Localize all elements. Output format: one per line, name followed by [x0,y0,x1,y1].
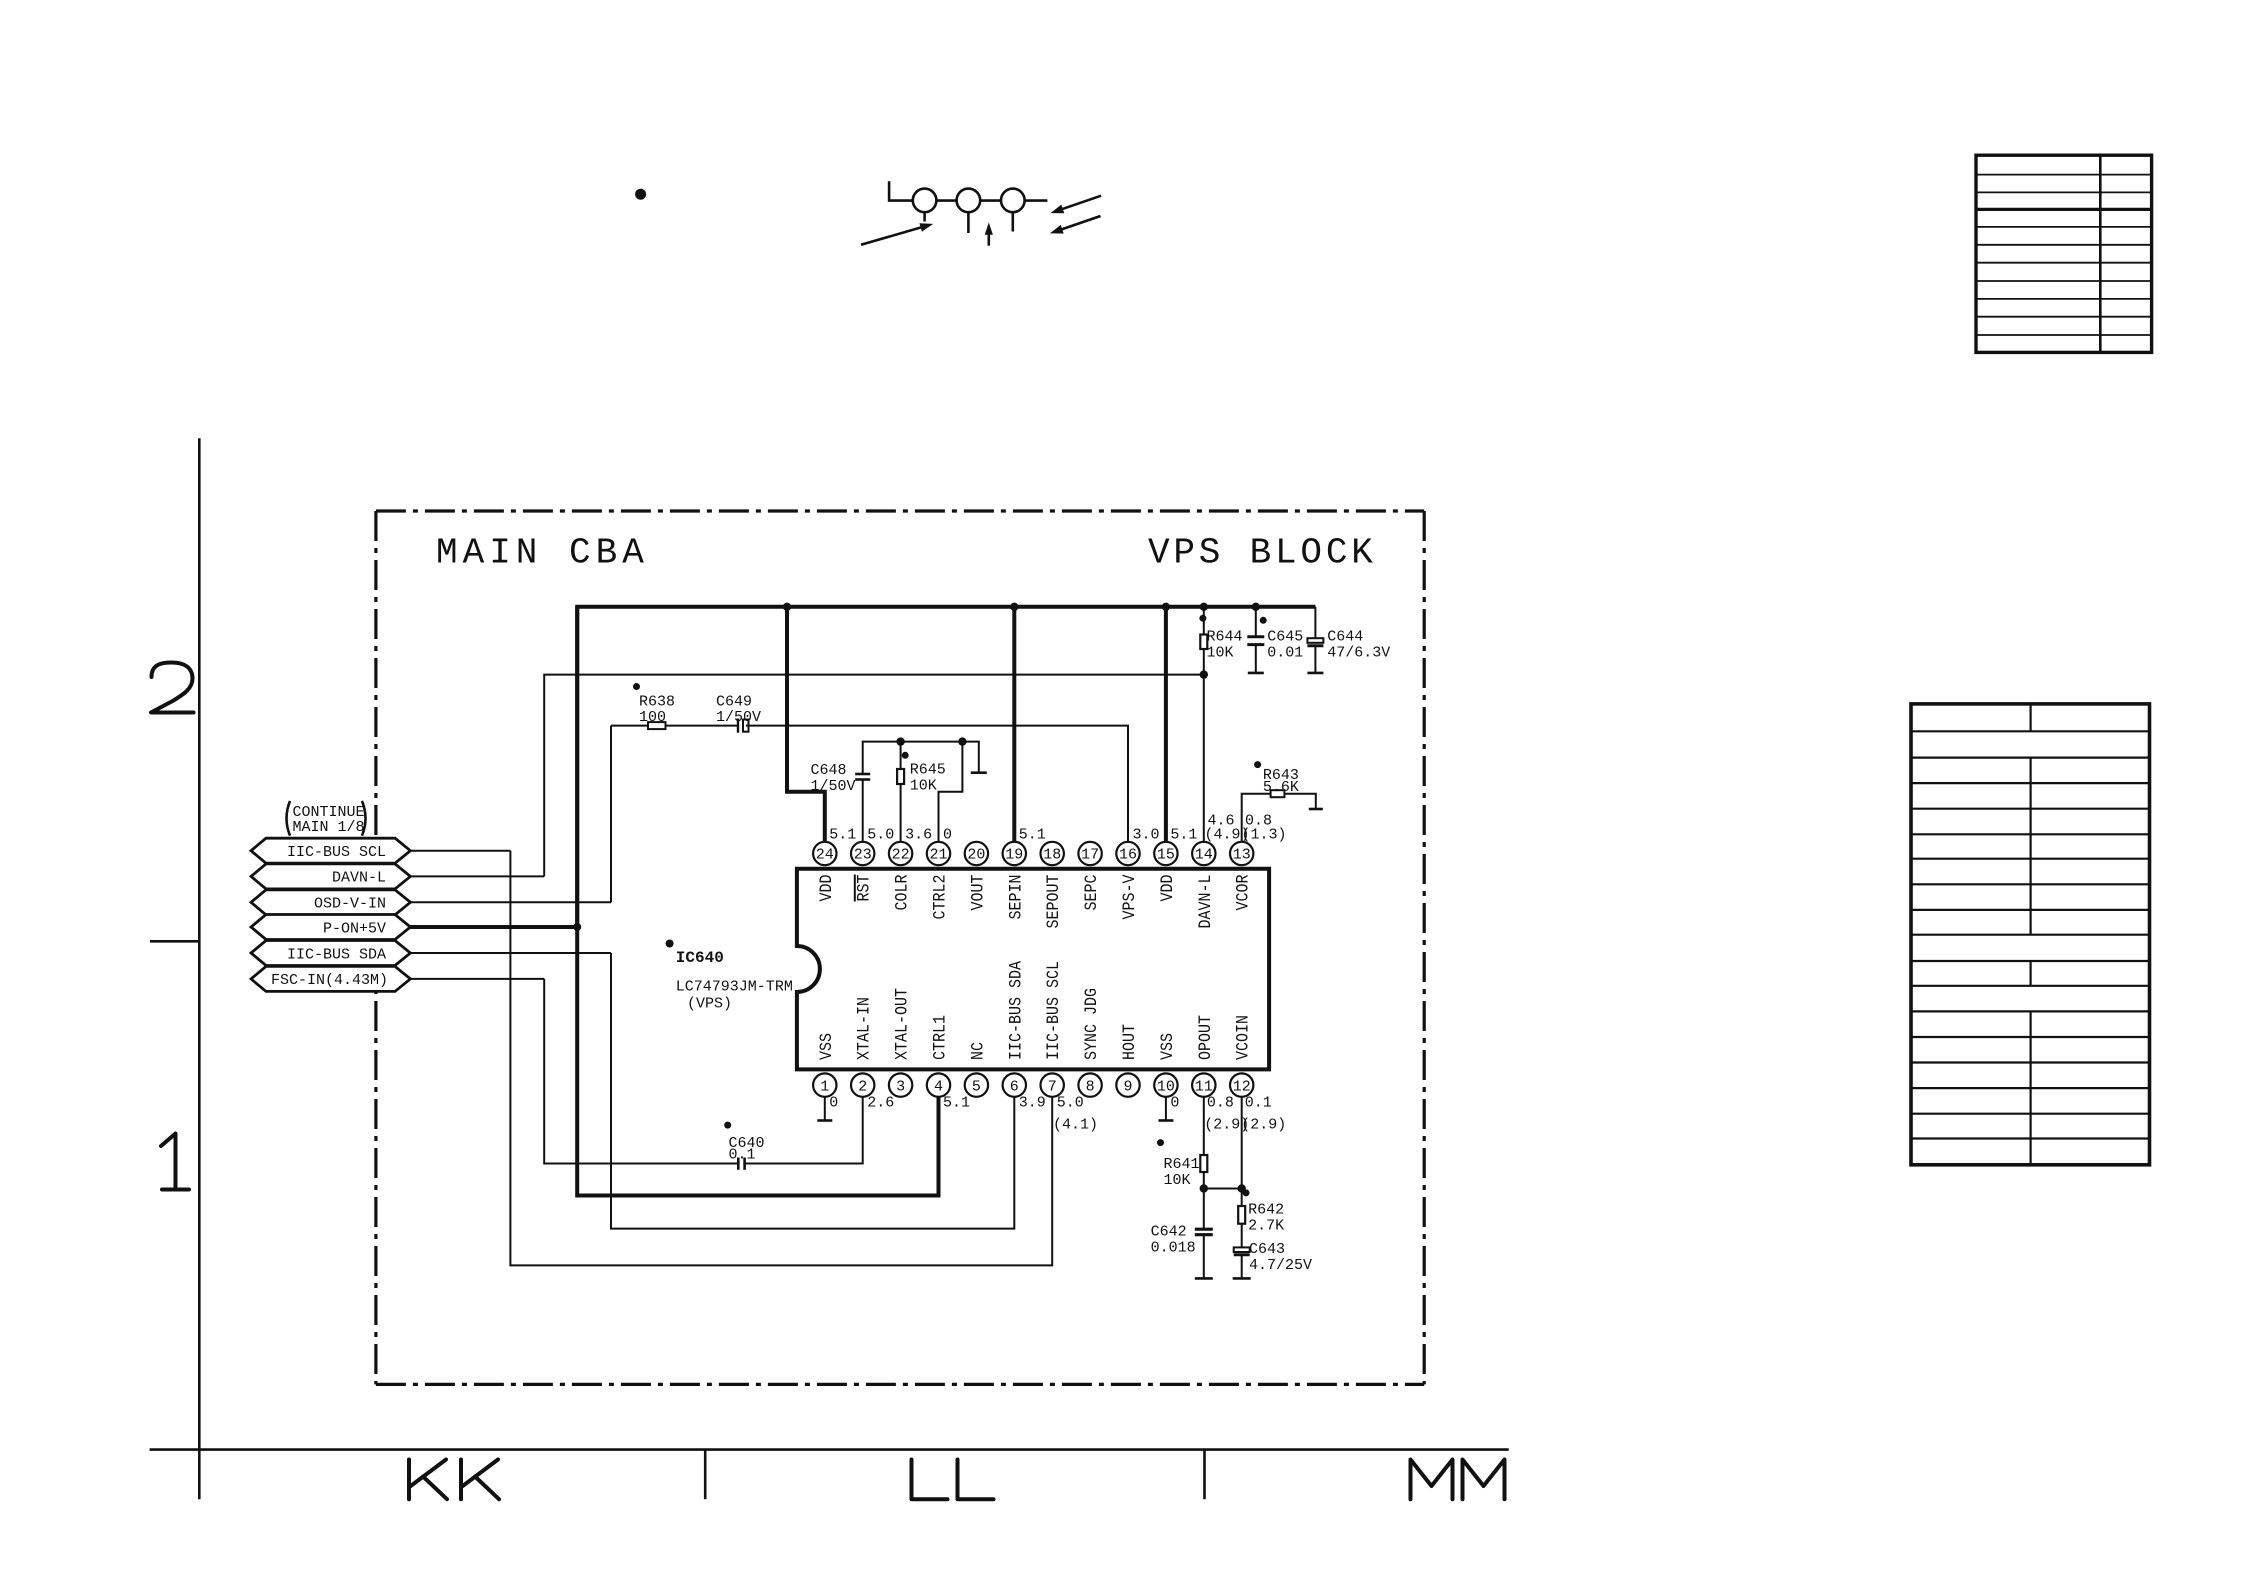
head circle 1 [913,189,937,213]
svg-text:NC: NC [968,1042,988,1060]
svg-text:16: 16 [1119,847,1137,864]
svg-text:(VPS): (VPS) [687,996,732,1013]
wire between heads 2-3 [980,199,1001,202]
node flag IIC-BUS SDA [251,941,410,966]
label C640 [724,1122,731,1129]
svg-text:5.1: 5.1 [829,827,856,844]
svg-text:VCOIN: VCOIN [1234,1015,1254,1060]
ground bar C645 [1248,672,1264,675]
resistor R638 100 (body) [648,722,666,729]
wire flag OSD-V-IN to net [410,901,611,903]
resistor R644 10K (body) [1200,635,1207,650]
wire DAVN-L horizontal net [544,675,1204,877]
wire R638/C649 line to pin 16 VPS-V [611,726,1128,842]
svg-text:OPOUT: OPOUT [1196,1015,1216,1060]
wire flag P-ON+5V to net (heavy) [410,925,577,929]
wire between heads 1-2 [936,199,956,202]
wire VDD branch to pin 15 [1164,607,1168,842]
svg-text:1: 1 [820,1078,829,1095]
svg-text:3.6: 3.6 [905,827,932,844]
bottom zone axis [150,1448,1509,1451]
junction rail pin15 branch [1162,603,1170,611]
svg-text:FSC-IN(4.43M): FSC-IN(4.43M) [271,972,388,989]
ground bar C642 [1195,1277,1213,1280]
svg-text:15: 15 [1157,847,1175,864]
svg-text:0.018: 0.018 [1151,1239,1196,1256]
head 1 stub [923,212,926,221]
svg-text:DAVN-L: DAVN-L [1196,875,1216,929]
pin circles top row 24-13 [813,842,1253,865]
pin numbers top row [816,847,1251,864]
svg-text:5.1: 5.1 [1170,827,1197,844]
svg-text:47/6.3V: 47/6.3V [1327,644,1390,661]
svg-text:24: 24 [816,847,834,864]
node flag P-ON+5V [251,915,410,940]
svg-text:(1.3): (1.3) [1242,827,1287,844]
zone ruler tick [150,940,199,943]
svg-text:10K: 10K [910,777,937,794]
pin names bottom row (rotated) [817,961,1254,1060]
svg-text:HOUT: HOUT [1120,1024,1140,1060]
svg-text:VSS: VSS [1158,1033,1178,1060]
svg-text:5.1: 5.1 [943,1095,970,1112]
voltage annotations top row [829,813,1286,844]
wire pin 11 OPOUT line with R641 C642 [1203,1097,1205,1279]
svg-text:22: 22 [892,847,910,864]
svg-text:VCOR: VCOR [1234,874,1254,910]
wire C645 branch [1255,607,1257,673]
zone label KK [409,1460,499,1500]
junction dot pin11 line [1200,1184,1208,1192]
node flag DAVN-L [251,864,410,889]
svg-text:C649: C649 [716,693,752,710]
resistor R641 10K (body) [1200,1155,1207,1172]
svg-text:19: 19 [1005,847,1023,864]
pin numbers bottom row [820,1078,1250,1095]
resistor R642 2.7K (body) [1238,1206,1245,1224]
wire flag DAVN-L to net [410,875,544,877]
svg-text:5.1: 5.1 [1019,827,1046,844]
svg-text:COLR: COLR [893,874,913,910]
wire IIC-BUS SCL net to pin 7 [510,851,1052,1266]
pin circles bottom row 1-12 [813,1073,1253,1096]
svg-text:C648: C648 [811,762,847,779]
capacitor C640 0.1 (plates) [738,1158,744,1170]
zone label 1 [161,1134,189,1190]
svg-text:2.6: 2.6 [867,1095,894,1112]
svg-text:10: 10 [1157,1078,1175,1095]
label (CONTINUE MAIN 1/8) [293,804,365,836]
svg-text:0: 0 [943,827,952,844]
junction rail pin24 branch [783,603,791,611]
node flag FSC-IN(4.43M) [251,966,410,991]
junction R645 top [896,737,904,745]
dash-dot block border MAIN CBA / VPS BLOCK [376,511,1424,1384]
svg-text:0.1: 0.1 [1245,1095,1272,1112]
junction DAVN-L at R644 line [1200,670,1208,678]
svg-text:2: 2 [858,1078,867,1095]
svg-text:CTRL1: CTRL1 [931,1015,951,1060]
pin names top row (rotated) [817,874,1254,928]
svg-text:VOUT: VOUT [968,875,988,911]
svg-text:RST: RST [855,875,875,902]
table right-middle (empty parts table) [1911,704,2150,1165]
svg-text:2.7K: 2.7K [1248,1217,1284,1234]
zone ruler vertical line [198,438,201,1499]
wire R643 from pin 13 VCOR [1242,794,1316,842]
wire flag SCL to net [410,850,510,852]
wire FSC-IN net to C640 [544,979,737,1164]
continue label parentheses [287,801,291,836]
rotary head drum symbol [889,181,1047,233]
svg-text:SEPC: SEPC [1082,875,1102,911]
svg-text:R645: R645 [910,762,946,779]
ground bar C644 [1307,672,1323,675]
op IC640 LC74793JM-TRM body with notch [797,869,1269,1070]
svg-text:IIC-BUS SDA: IIC-BUS SDA [287,946,386,963]
wire R644 branch rail to pin 14 DAVN-L [1203,607,1205,842]
wire branch to pin 21 CTRL2 [939,742,963,842]
svg-text:C645: C645 [1267,629,1303,646]
svg-text:LC74793JM-TRM: LC74793JM-TRM [676,979,793,996]
svg-text:5: 5 [972,1078,981,1095]
svg-text:0.01: 0.01 [1267,644,1303,661]
svg-text:7: 7 [1048,1078,1057,1095]
svg-text:0.1: 0.1 [729,1146,756,1163]
capacitor C643 4.7/25V electrolytic (plates) [1234,1247,1250,1254]
wire C644 branch [1314,607,1316,673]
svg-text:MAIN CBA: MAIN CBA [436,533,649,574]
wire pin 12 VCOIN line with R642 C643 [1241,1097,1243,1279]
svg-text:100: 100 [639,709,666,726]
svg-text:IIC-BUS SCL: IIC-BUS SCL [287,844,386,861]
voltage annotations bottom row [829,1095,1286,1134]
label R643 [1254,761,1261,768]
wire junction between pin11 and pin12 lines [1204,1188,1242,1190]
svg-text:8: 8 [1086,1078,1095,1095]
wire L-lead [889,181,913,200]
svg-text:SEPOUT: SEPOUT [1044,875,1064,929]
resistor R645 10K (body) [897,769,904,784]
node flag IIC-BUS SCL [251,838,410,863]
junction P-ON+5V flag to vertical [573,923,581,931]
svg-text:14: 14 [1195,847,1213,864]
arrow upper-right [1051,196,1102,214]
wire P-ON+5V heavy vertical down to CTRL1 line [577,607,938,1196]
svg-text:4: 4 [934,1078,943,1095]
head 3 stub [1011,212,1014,231]
svg-text:VSS: VSS [817,1033,837,1060]
svg-text:IIC-BUS SDA: IIC-BUS SDA [1006,961,1026,1060]
svg-text:6: 6 [1010,1078,1019,1095]
label C645 [1260,617,1267,624]
svg-text:4.7/25V: 4.7/25V [1249,1257,1312,1274]
svg-text:IC640: IC640 [676,949,724,967]
svg-text:IIC-BUS SCL: IIC-BUS SCL [1044,961,1064,1060]
head circle 2 [957,189,981,213]
junction rail C645 branch [1252,603,1260,611]
svg-text:C644: C644 [1327,629,1363,646]
wire R645 on pin 22 line [900,742,902,842]
svg-text:CTRL2: CTRL2 [931,875,951,920]
svg-text:(4.1): (4.1) [1053,1117,1098,1134]
dead-end stub bar right of R645 [971,771,987,774]
capacitor C644 47/6.3V electrolytic (plates) [1307,638,1323,646]
wire flag SDA to net [410,952,611,954]
svg-text:3: 3 [896,1078,905,1095]
capacitor C642 0.018 (plates) [1195,1229,1213,1235]
svg-text:12: 12 [1233,1078,1251,1095]
junction rail pin19 branch [1010,603,1018,611]
revision dot top-left [635,189,646,200]
svg-text:18: 18 [1043,847,1061,864]
junction dot pin12 line [1238,1184,1246,1192]
svg-text:23: 23 [854,847,872,864]
svg-text:0.8: 0.8 [1207,1095,1234,1112]
wire C640 to pin 2 XTAL-IN [745,1097,862,1164]
table top-right (empty revision table) [1976,155,2152,352]
svg-text:9: 9 [1123,1078,1132,1095]
zone label MM [1411,1460,1505,1500]
junction pin21 branch [958,737,966,745]
RST overline [854,875,856,902]
svg-text:21: 21 [929,847,947,864]
arrow lower-left [861,223,933,245]
svg-text:1/50V: 1/50V [811,778,856,795]
svg-text:R641: R641 [1164,1156,1200,1173]
svg-text:R644: R644 [1207,629,1243,646]
svg-text:1/50V: 1/50V [716,709,761,726]
svg-text:SYNC JDG: SYNC JDG [1082,988,1102,1060]
stub bar pin 1 [817,1119,832,1122]
svg-text:5.0: 5.0 [867,827,894,844]
arrow up center [985,223,993,246]
svg-text:R638: R638 [639,693,675,710]
svg-text:XTAL-IN: XTAL-IN [855,997,875,1060]
node flag OSD-V-IN [251,890,410,915]
svg-text:(2.9): (2.9) [1241,1117,1286,1134]
svg-text:OSD-V-IN: OSD-V-IN [314,896,386,913]
svg-text:20: 20 [967,847,985,864]
svg-text:P-ON+5V: P-ON+5V [323,920,386,937]
zone label 2 [151,663,194,713]
label R638 [633,683,640,690]
svg-text:10K: 10K [1164,1172,1191,1189]
axis tick 2 [1203,1450,1206,1500]
wire C648 branch from pin 23 [863,742,979,842]
zone label LL [912,1460,994,1500]
svg-text:0: 0 [1170,1095,1179,1112]
svg-text:MAIN 1/8: MAIN 1/8 [293,819,365,836]
wire VDD branch to pin 19 SEPIN [1012,607,1016,842]
stub bar pin 10 [1158,1119,1173,1122]
capacitor C645 0.01 (plates) [1247,637,1264,645]
svg-text:VPS-V: VPS-V [1120,874,1140,919]
svg-text:3.0: 3.0 [1133,827,1160,844]
wire VDD branch to pin 24 [787,607,825,842]
wire IIC-BUS SDA net to pin 6 [611,953,1014,1229]
svg-text:R642: R642 [1248,1202,1284,1219]
label IC640 [666,940,674,948]
label R644 [1199,615,1206,622]
head circle 3 [1001,189,1025,213]
svg-text:17: 17 [1081,847,1099,864]
svg-text:XTAL-OUT: XTAL-OUT [893,988,913,1060]
wire OSD-V-IN up to R638 line [610,726,612,903]
svg-text:0: 0 [829,1095,838,1112]
arrow lower-right [1050,216,1101,234]
label R641 [1157,1139,1164,1146]
svg-text:VDD: VDD [1158,875,1178,902]
svg-text:C642: C642 [1151,1224,1187,1241]
svg-text:5.0: 5.0 [1057,1095,1084,1112]
svg-text:13: 13 [1233,847,1251,864]
wire VDD top rail [577,607,1315,927]
capacitor C649 1/50V (plates) [738,719,749,733]
wire right lead [1025,199,1048,202]
ground bar C643 [1233,1277,1251,1280]
svg-text:DAVN-L: DAVN-L [332,870,386,887]
ground bar R643 [1309,808,1323,811]
resistor R643 5.6K (body) [1271,790,1285,797]
head 2 stub [967,212,970,233]
svg-text:11: 11 [1195,1078,1213,1095]
wire pin 1 VSS stub [824,1097,826,1121]
svg-text:10K: 10K [1207,644,1234,661]
svg-text:VPS BLOCK: VPS BLOCK [1148,533,1377,574]
capacitor C648 1/50V (plates) [855,774,870,780]
svg-text:VDD: VDD [817,875,837,902]
label R645 [902,752,909,759]
wire flag FSC-IN to net [410,978,544,980]
label R642 [1243,1189,1250,1196]
svg-text:3.9: 3.9 [1019,1095,1046,1112]
junction rail R644 branch [1200,603,1208,611]
svg-text:SEPIN: SEPIN [1006,875,1026,920]
axis tick 1 [704,1450,707,1500]
svg-text:C643: C643 [1249,1241,1285,1258]
wire pin 10 VSS stub [1165,1097,1167,1121]
svg-text:5.6K: 5.6K [1263,779,1299,796]
